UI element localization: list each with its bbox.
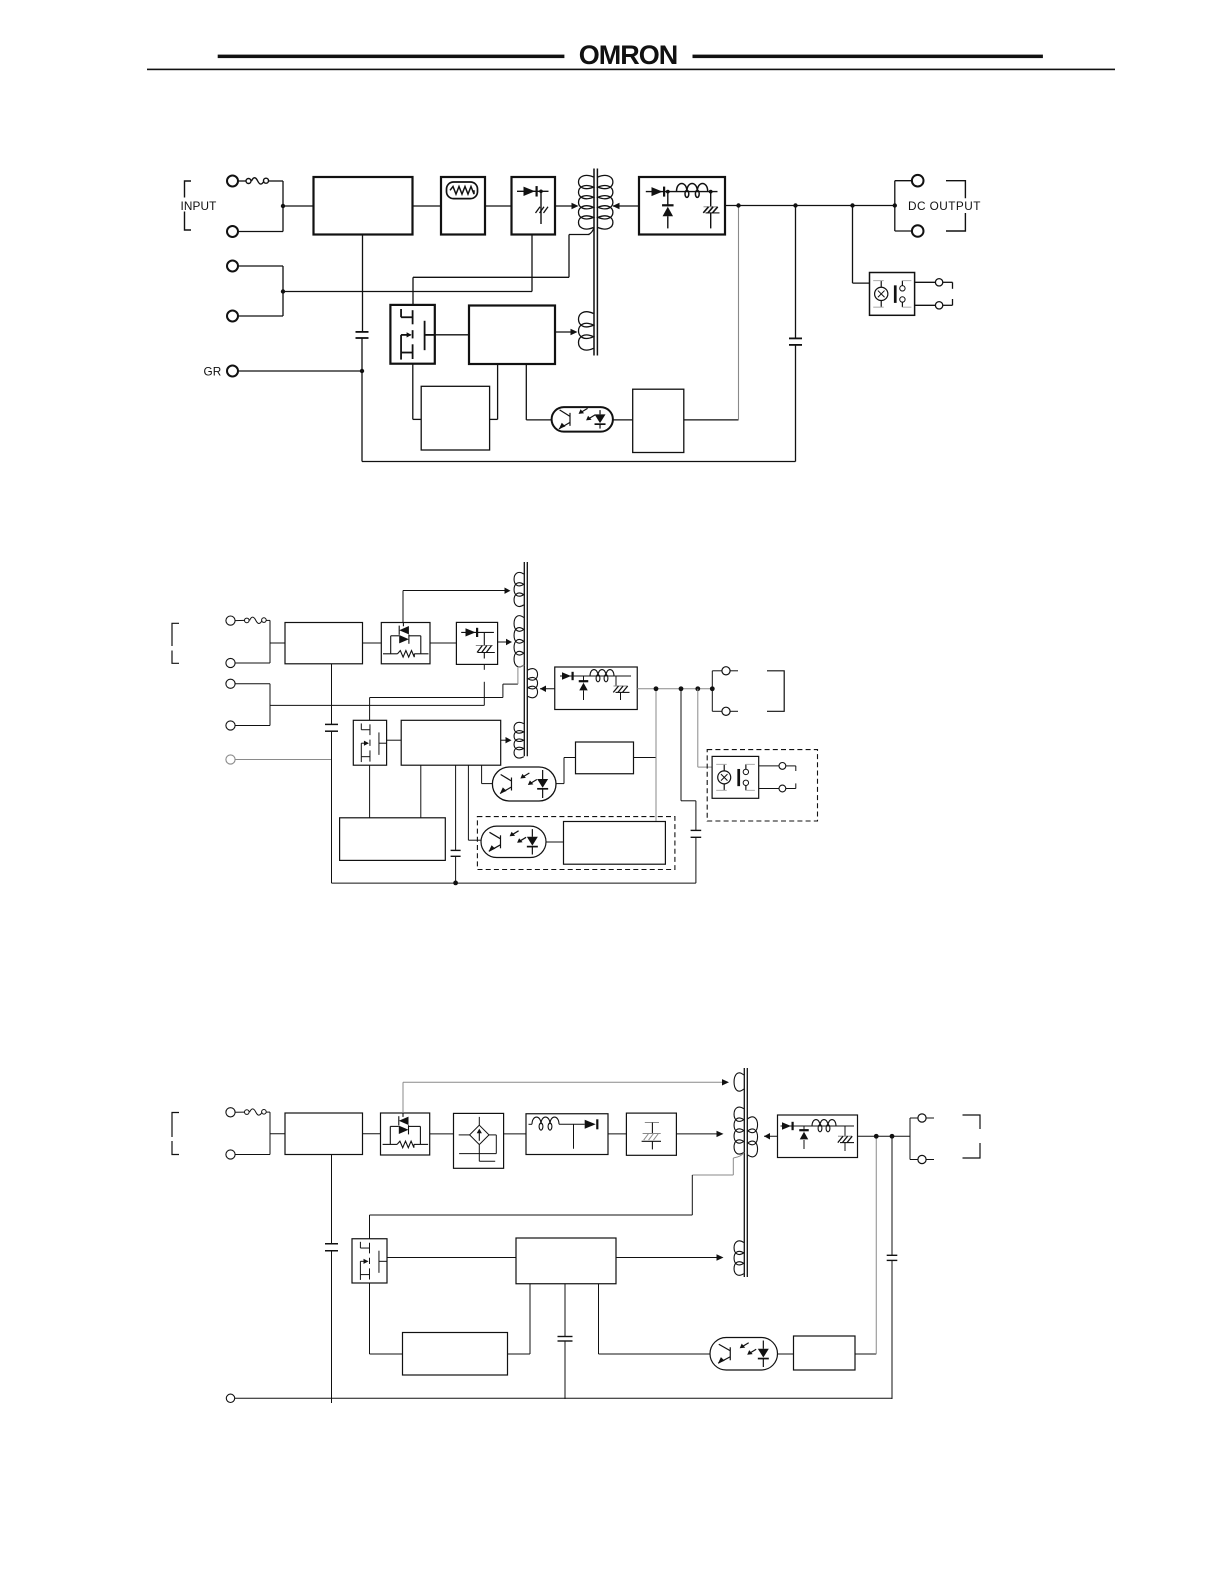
D3 node o2 (890, 1134, 895, 1139)
D3 output rectifier block (778, 1115, 858, 1158)
D2 wire secondary-block4 (540, 686, 555, 692)
svg-text:GR: GR (204, 364, 222, 378)
D1 main output wire (725, 205, 895, 207)
D2 bias winding (514, 572, 524, 606)
D1 MOSFET Q1 block (390, 305, 434, 364)
D3 wire box6 to control (508, 1284, 531, 1354)
D2 output bracket (767, 671, 784, 712)
D2 wire control to photocoupler1 (482, 765, 493, 783)
D1 wire block5 to output node (684, 206, 739, 420)
D3 wire PC-block8 (778, 1353, 794, 1355)
D3 wire block3-block4 (504, 1133, 526, 1135)
D2 stub below block3 (483, 664, 485, 705)
D1 wire GR (238, 370, 362, 372)
D3 constant current block (454, 1113, 504, 1168)
D3 output wire (858, 1135, 911, 1137)
D1 wire block3-primary (555, 203, 579, 209)
D1 primary winding (579, 175, 594, 229)
D3 control circuit block (516, 1238, 616, 1284)
D3 wire MOSFET source to box6 (370, 1283, 403, 1354)
D1 node out2 (793, 203, 797, 207)
D3 wire block5-primary (676, 1131, 723, 1137)
D2 wire gate (387, 739, 402, 741)
D1 wire block1-block2 (413, 205, 442, 207)
D2 wire control-aux winding (501, 737, 512, 743)
D2 surge suppressor block (381, 623, 430, 664)
D2 primary winding (514, 616, 524, 667)
D3 noise filter block (285, 1113, 363, 1155)
D2 terminal T1 (226, 616, 235, 625)
D2 wire block2-block3 (430, 642, 456, 644)
header left rule (218, 55, 565, 59)
D1 secondary winding (598, 175, 613, 229)
D2 wire block2 top to bias winding (403, 588, 511, 623)
D3 primary winding (734, 1107, 744, 1154)
D1 voltage detector block (633, 389, 684, 452)
D3 output capacitor (887, 1136, 898, 1399)
D3 output bracket (963, 1115, 981, 1158)
D1 terminal T1 (227, 176, 238, 187)
D2 wire T3T4 line (270, 704, 484, 706)
D2 terminal T2 (226, 658, 235, 667)
D2 rectifier block (456, 622, 497, 664)
D2 wire MOSFET source to box6 (369, 765, 371, 818)
D2 output terminals (712, 667, 738, 716)
D3 terminal T1 (226, 1108, 235, 1117)
D1 GR terminal (204, 364, 239, 378)
svg-text:DC OUTPUT: DC OUTPUT (908, 199, 981, 213)
D1 wire secondary-block4 (613, 203, 640, 209)
D2 node o1 (654, 686, 659, 691)
D2 node o2 (679, 686, 684, 691)
D3 wire control to photocoupler (599, 1284, 711, 1354)
OMRON logo (579, 40, 678, 70)
D2 wire block3-primary (498, 639, 512, 645)
D1 transformer T101 core (594, 169, 597, 356)
svg-text:INPUT: INPUT (181, 199, 217, 213)
D1 output capacitor C2 (789, 206, 802, 462)
D2 node ground junction (453, 881, 458, 886)
D1 wire primary to MOSFET drain (413, 228, 594, 305)
D2 wire control to box6 (420, 765, 422, 818)
D2 voltage detector block (576, 742, 634, 774)
D1 wire relay feed (853, 206, 870, 284)
D2 photocoupler PC1 (492, 767, 556, 801)
D2 wire control to photocoupler2 (468, 765, 481, 840)
D2 control ground capacitor (451, 765, 461, 882)
D3 input bracket (172, 1113, 179, 1155)
D3 wire primary bottom to MOSFET drain (370, 1152, 745, 1238)
header right rule (693, 55, 1043, 59)
D2 node o3 (695, 686, 700, 691)
D2 relay block (712, 756, 759, 798)
D3 output terminals (910, 1114, 934, 1164)
D1 wire block2-block3 (485, 205, 512, 207)
D3 wires input join (235, 1112, 285, 1154)
D2 dashed option box relay (707, 750, 817, 821)
D2 dashed option box PC2 (477, 817, 675, 870)
D3 input capacitor (325, 1155, 338, 1404)
D1 output indicator relay block (870, 273, 915, 316)
svg-text:OMRON: OMRON (579, 40, 678, 70)
D2 aux winding (514, 722, 524, 758)
D3 transformer core (744, 1068, 747, 1277)
D1 terminal T2 (227, 226, 238, 237)
D1 node out1 (736, 203, 740, 207)
D3 wire block8 to output node (855, 1136, 876, 1354)
D1 control circuit block (469, 306, 555, 365)
D3 control ground capacitor (558, 1284, 573, 1399)
D1 wire control to box6 (490, 364, 498, 419)
D2 wire block5 to grey bus (634, 757, 657, 759)
D3 node o1 (874, 1134, 879, 1139)
D2 MOSFET block (353, 720, 386, 765)
D2 noise filter block (285, 623, 363, 664)
D1 node T3T4 junction (281, 289, 285, 293)
D1 wire input joins (238, 181, 314, 232)
D2 terminals T3 T4 (226, 679, 270, 730)
D3 aux winding (734, 1241, 744, 1275)
D2 ground wire (332, 882, 696, 884)
D3 wire block2 top to bias winding (403, 1079, 729, 1113)
D3 wire block2-block3 (430, 1133, 454, 1135)
D3 wire block4-block5 (608, 1133, 626, 1135)
D2 secondary winding (528, 669, 538, 698)
D3 filter choke block (526, 1114, 608, 1155)
D2 wire PC2-block7 (546, 841, 564, 843)
D2 wire PC1 to block5 (556, 758, 576, 784)
D1 aux winding (579, 312, 594, 350)
D1 noise filter block (314, 177, 413, 235)
D2 node o4 (710, 686, 715, 691)
D1 INPUT bracket (181, 181, 217, 230)
D1 DC OUTPUT bracket (946, 181, 965, 231)
D3 wire gate (387, 1257, 516, 1259)
D2 output wire (637, 688, 712, 690)
D2 input capacitor (325, 664, 338, 883)
D3 wire secondary-block7 (764, 1133, 778, 1139)
D1 wire gate (435, 334, 469, 336)
D1 node input junction (281, 204, 285, 208)
D2 control circuit block (401, 720, 501, 765)
D1 node GR junction (360, 369, 364, 373)
D1 node out3 (850, 203, 854, 207)
D1 wire T3T4 to block3 (283, 235, 532, 292)
D2 output capacitor path (681, 689, 701, 883)
D2 relay outputs (759, 763, 796, 792)
D2 transformer core (524, 562, 527, 756)
D3 overcurrent detector box (403, 1333, 508, 1376)
D3 terminal T2 (226, 1150, 235, 1159)
D3 wire control-aux winding (616, 1254, 724, 1260)
D3 surge suppressor block (381, 1113, 430, 1155)
D2 remote control block (564, 822, 666, 865)
D2 output rectifier block (555, 667, 638, 710)
D3 fuse (235, 1109, 270, 1115)
D3 ground terminal (226, 1394, 892, 1402)
D2 grey bus wire (655, 689, 657, 822)
header thin rule (147, 69, 1115, 71)
D1 wire control to photocoupler (526, 364, 551, 420)
D3 surge absorber block (626, 1113, 676, 1155)
D3 wire block1-block2 (363, 1133, 381, 1135)
D1 inrush current limit block (441, 177, 485, 235)
D1 ground return wire (362, 461, 796, 463)
D1 overcurrent detector box (421, 386, 489, 450)
D3 bias winding single loop (734, 1073, 744, 1091)
D2 wire block1-block2 (363, 642, 382, 644)
D2 wires input join (235, 620, 285, 663)
D1 rectifier block (512, 177, 556, 235)
D2 fuse (235, 617, 270, 623)
D1 output rectifier block (639, 177, 725, 235)
D2 input bracket (172, 623, 179, 663)
D1 photocoupler PC1 (552, 407, 613, 432)
D1 DC line terminals T3 T4 (227, 261, 283, 322)
D1 input capacitor C1 (356, 235, 369, 462)
D1 node out4 (893, 203, 897, 207)
D1 wire MOSFET source down (413, 364, 421, 420)
D2 photocoupler PC2 (481, 826, 546, 857)
D3 photocoupler PC1 (710, 1338, 778, 1371)
D3 secondary winding (748, 1117, 758, 1157)
D1 wire control-auxwinding (555, 329, 578, 335)
D2 overcurrent detector box (340, 818, 446, 861)
D3 MOSFET block (352, 1239, 387, 1283)
D1 relay contact outputs (915, 279, 953, 309)
D2 terminal T5 remote (226, 755, 332, 764)
D3 voltage detector block (794, 1336, 856, 1370)
D1 wire photocoupler-block5 (613, 419, 633, 421)
D1 DC OUTPUT terminals (895, 175, 924, 237)
D1 fuse F1 (238, 178, 283, 184)
D2 wire relay feed (698, 689, 712, 767)
D2 wire MOSFET drain to primary (370, 665, 525, 720)
